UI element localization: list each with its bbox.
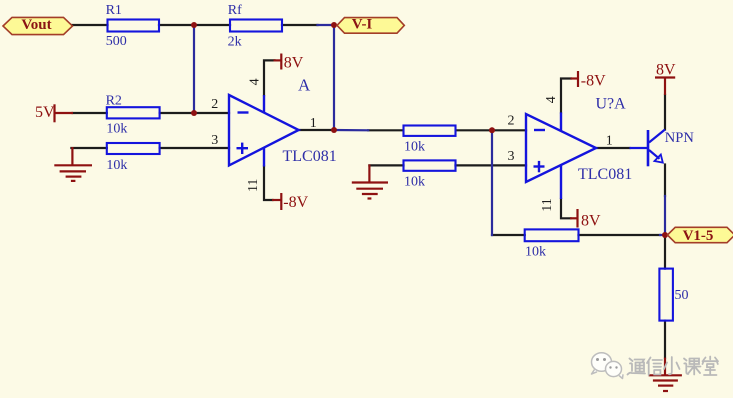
svg-text:NPN: NPN [665, 130, 695, 146]
svg-text:Rf: Rf [228, 3, 242, 18]
svg-text:1: 1 [606, 134, 613, 149]
svg-text:8V: 8V [581, 213, 601, 230]
op-amp U1 non-inverting input plus [237, 147, 249, 149]
wire Q1 emitter down [664, 165, 666, 197]
resistor R50 vertical [659, 269, 673, 321]
svg-text:V-I: V-I [352, 17, 373, 33]
wire emitter node vertical [664, 196, 666, 234]
power: -8V at U2 pin 4 [571, 71, 579, 87]
wire 8V to Q1 collector [664, 95, 666, 130]
wire below node V1-5 to R50 [664, 237, 666, 269]
wire V-I node vertical [333, 25, 335, 130]
transistor Q1 collector [649, 130, 665, 143]
node junction U1 pin1 [331, 127, 337, 133]
svg-text:R2: R2 [106, 94, 122, 109]
svg-text:10k: 10k [525, 244, 546, 259]
node junction R2/pin2 [191, 110, 197, 116]
glyph 小 [664, 357, 680, 374]
svg-text:10k: 10k [106, 158, 127, 173]
svg-text:2: 2 [211, 97, 218, 112]
power: 8V at U2 pin 11 [570, 209, 578, 228]
op-amp U2 pin 11 stub [560, 165, 562, 199]
svg-text:TLC081: TLC081 [578, 166, 632, 183]
wire to V-I node [318, 24, 335, 26]
wire U2 pin 1 to Q1 base [596, 147, 630, 149]
wire ground to R5 [71, 147, 106, 149]
wire U1 pin1 to node [299, 129, 334, 131]
resistor R3 10k [404, 126, 456, 136]
wire ground2 to R4 [369, 164, 403, 166]
resistor R2 [107, 107, 160, 118]
wire R4 to op-amp U2 pin 3 [456, 164, 527, 166]
wire Rf to node V-I [282, 24, 318, 26]
wire U1 pin 11 to -8V [264, 167, 273, 201]
glyph 堂 [703, 357, 719, 376]
svg-text:2k: 2k [228, 35, 242, 50]
wire feedback vertical [491, 130, 493, 235]
transistor Q1 base pin [630, 147, 649, 149]
wire into V1-5 node [660, 234, 665, 236]
svg-text:1: 1 [310, 116, 317, 131]
svg-text:4: 4 [544, 96, 559, 103]
wire R3 to node B [457, 129, 526, 131]
wire feedback left [492, 234, 525, 236]
resistor R4 10k [404, 160, 456, 170]
op-amp U1 pin 11 stub [263, 148, 265, 167]
svg-text:V1-5: V1-5 [683, 228, 714, 244]
node junction V1-5 [662, 232, 668, 238]
transistor Q1 emitter [649, 150, 660, 159]
watermark icon eyes [596, 358, 599, 361]
svg-text:3: 3 [211, 133, 218, 148]
svg-text:-8V: -8V [581, 73, 606, 90]
wire R50 to ground3 [664, 321, 666, 358]
wire 5V to R2 [73, 112, 107, 114]
wire U2 pin 11 to 8V [561, 199, 571, 218]
svg-text:U?A: U?A [596, 96, 627, 113]
svg-text:4: 4 [247, 78, 262, 85]
svg-text:A: A [298, 76, 311, 95]
svg-text:8V: 8V [656, 61, 676, 78]
watermark text 通信小课堂 (approximated glyphs) [628, 357, 719, 376]
resistor Rfb 10k [525, 229, 579, 241]
transistor Q1 emitter arrow [655, 155, 663, 163]
wire U1 out node to R3 [334, 129, 368, 132]
wire R1 to Rf [159, 24, 230, 26]
node junction Rf/V-I [331, 22, 337, 28]
svg-text:10k: 10k [404, 174, 425, 189]
glyph 通 [628, 359, 646, 375]
svg-text:R1: R1 [106, 3, 122, 18]
svg-text:11: 11 [246, 179, 261, 192]
op-amp U2 pin 4 stub [560, 112, 562, 131]
svg-text:10k: 10k [106, 122, 127, 137]
svg-text:Vout: Vout [21, 17, 51, 33]
wire node A vertical [193, 25, 195, 113]
wire node to R3 [368, 129, 403, 131]
op-amp U2 non-inverting input plus [534, 165, 545, 167]
node junction U2 pin2/feedback [489, 127, 495, 133]
op-amp U1 pin 4 stub [263, 95, 265, 113]
resistor R1 [108, 20, 160, 32]
resistor Rf [230, 20, 282, 32]
svg-text:3: 3 [508, 149, 515, 164]
power: 8V at U1 pin 4 [274, 54, 282, 70]
glyph 课 [684, 359, 701, 375]
svg-text:-8V: -8V [283, 194, 308, 211]
op-amp U1 body [229, 95, 299, 165]
power: -8V at U1 pin 11 [272, 193, 281, 210]
wire U1 pin 4 to 8V [264, 60, 275, 95]
transistor Q1 base bar [647, 130, 650, 166]
wire U2 pin 4 to -8V [561, 79, 571, 113]
wire R2 to op-amp U1 pin 2 [160, 112, 229, 114]
power: 8V at transistor collector [655, 78, 675, 95]
resistor R5 10k [107, 143, 160, 154]
glyph 信 [647, 358, 662, 376]
svg-text:11: 11 [540, 198, 555, 211]
wire feedback right [579, 234, 661, 236]
svg-text:10k: 10k [404, 140, 425, 155]
watermark wechat icon small bubble [606, 361, 622, 376]
wire Vout to R1 [73, 24, 108, 26]
op-amp U1 inverting input minus [238, 111, 249, 113]
svg-text:8V: 8V [284, 55, 304, 72]
svg-text:5V: 5V [35, 104, 55, 121]
watermark wechat icon big bubble [592, 353, 612, 372]
svg-text:TLC081: TLC081 [283, 148, 337, 165]
svg-text:2: 2 [508, 114, 515, 129]
op-amp U2 inverting input minus [534, 129, 545, 131]
op-amp U2 body [526, 114, 596, 182]
wire R5 to op-amp U1 pin 3 [160, 147, 229, 149]
svg-text:50: 50 [675, 288, 689, 303]
svg-text:500: 500 [106, 34, 127, 49]
node junction R1/Rf [191, 22, 197, 28]
